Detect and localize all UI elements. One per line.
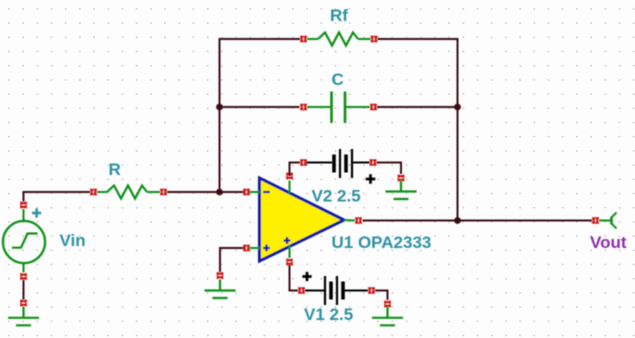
junction: right column / C row (454, 104, 461, 111)
pin marker Rf left (301, 36, 307, 43)
wire: V1 right to ground (375, 291, 388, 301)
pin marker R left (91, 189, 97, 196)
pin marker op-amp bottom supply (286, 259, 293, 265)
svg-text:Vin: Vin (60, 231, 86, 250)
op-amp inverting input stub (249, 191, 260, 193)
wire: right feedback column from Rf row down to output row (457, 38, 459, 221)
wire: top feedback row left segment to Rf (219, 38, 301, 40)
pin marker V2 right (370, 159, 376, 166)
wire: op-amp top supply pin to V2 (290, 163, 301, 177)
svg-text:V1 2.5: V1 2.5 (304, 305, 353, 324)
ground at V1 (372, 307, 403, 326)
svg-text:C: C (332, 70, 344, 89)
junction: input row / left column (216, 189, 223, 196)
svg-text:U1 OPA2333: U1 OPA2333 (332, 233, 432, 252)
svg-text:V2 2.5: V2 2.5 (312, 187, 361, 206)
pin marker V2 left (301, 159, 307, 166)
pin marker V1 left (299, 287, 305, 294)
pin marker C right (371, 104, 377, 111)
pin marker V1 right (369, 287, 375, 294)
op-amp output stub (344, 219, 355, 222)
junction: left column / C row (216, 104, 223, 111)
pin marker op-amp inverting input (244, 189, 250, 196)
ground at non-inverting input (205, 280, 236, 299)
pin marker V1 ground (384, 301, 391, 307)
wire: left feedback column from Rf row down to inverting-input row (219, 39, 221, 192)
pin marker C left (301, 104, 307, 111)
pin marker op-amp output (356, 217, 362, 224)
polarity plus of Vin (32, 208, 41, 217)
wire: non-inverting input to ground (220, 248, 244, 272)
pin marker op-amp top supply (286, 173, 293, 179)
op-amp top supply pin stub (289, 181, 291, 194)
wire: Vin top column to input row corner (23, 192, 25, 202)
polarity plus of V2 (366, 174, 376, 184)
wire: input row from Vin corner to R (23, 191, 91, 193)
pin marker Vin ground (20, 300, 27, 306)
op-amp bottom supply pin stub (289, 246, 291, 259)
voltage source Vin (3, 209, 45, 273)
wire: C row left segment from junction to C (220, 106, 300, 108)
svg-text:Vout: Vout (590, 233, 627, 252)
wire: C row right segment from C to right column (377, 106, 458, 108)
capacitor C (307, 92, 370, 124)
pin marker op-amp non-inverting input (244, 245, 250, 252)
svg-text:Rf: Rf (330, 6, 348, 25)
wire: V2 right to ground (377, 163, 402, 175)
polarity plus of V1 (302, 272, 311, 281)
battery V1 (305, 276, 368, 305)
resistor R (97, 186, 160, 199)
svg-text:R: R (109, 160, 121, 179)
pin marker non-inverting ground (217, 273, 224, 279)
wire: top feedback row right segment from Rf to right column (378, 38, 458, 40)
op-amp non-inverting input stub (250, 247, 261, 249)
pin marker Vin top (20, 202, 27, 208)
resistor Rf (307, 33, 371, 46)
wire: input row from R to junction at inverting input (167, 191, 220, 193)
battery V2 (307, 149, 370, 178)
junction: output row / right column (454, 217, 461, 224)
pin marker Vin bottom (20, 274, 27, 280)
ground at V2 (386, 181, 417, 200)
op-amp U1 OPA2333 (260, 178, 345, 261)
pin marker R right (161, 189, 167, 196)
pin marker V2 ground (398, 175, 405, 181)
pin marker Rf right (371, 36, 377, 43)
wire: Vin bottom to ground (23, 280, 25, 300)
wire: op-amp bottom supply pin to V1 (290, 265, 299, 291)
pin marker Vout (593, 217, 599, 224)
wire: junction to op-amp inverting input (220, 191, 244, 193)
wire: output row from op-amp to Vout (363, 220, 593, 222)
output pin Vout (599, 213, 617, 229)
ground below Vin (8, 307, 39, 326)
